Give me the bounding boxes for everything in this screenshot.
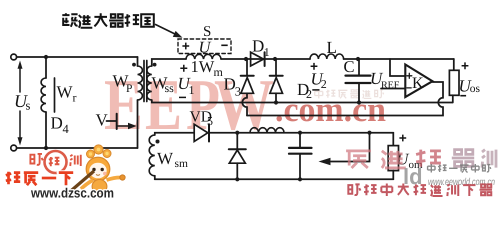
inductor Wm magamp winding [186, 54, 221, 59]
svg-text:L: L [327, 38, 337, 57]
svg-text:os: os [470, 83, 481, 95]
watermark weiku yixia red text [6, 172, 73, 186]
wire L to output [344, 58, 454, 60]
diode D2 top lead [275, 59, 277, 76]
watermark yiditu peixun red chars [346, 150, 496, 168]
wire branch to comparator plus input [390, 59, 405, 76]
wire VD5 to corner [208, 132, 393, 134]
svg-text:2: 2 [321, 77, 327, 91]
bottom-section wire Wsm top [155, 133, 194, 135]
svg-text:s: s [26, 99, 31, 113]
transformer secondary winding Wss [147, 66, 152, 100]
svg-text:U: U [199, 38, 212, 57]
label plus of U2 [311, 63, 318, 70]
watermark shepin tianxian red row [348, 184, 492, 196]
svg-text:W: W [157, 149, 174, 168]
svg-text:1: 1 [189, 83, 195, 97]
svg-text:D: D [51, 114, 63, 133]
transistor V gate lead [107, 120, 117, 122]
input terminal top [11, 54, 17, 60]
node junction freewheel diode bottom [235, 177, 239, 181]
label plus 1Wm [180, 65, 187, 72]
label minus of U2 [312, 89, 319, 91]
winding Wsm [149, 135, 155, 176]
wire primary-to-rail vertical [137, 100, 139, 148]
label plus of Uom [399, 135, 406, 142]
polarity dot Wss [153, 63, 157, 67]
svg-text:m: m [214, 65, 224, 79]
op-amp K comparator triangle [405, 65, 432, 98]
watermark dzsc mascot head [86, 157, 110, 181]
wire secondary bottom rail [152, 100, 453, 103]
reset current arrow [331, 133, 370, 162]
resistor Uos load [453, 59, 455, 70]
label plus in magamp box [182, 43, 189, 50]
wire D1 to L [246, 58, 310, 60]
svg-text:P: P [126, 83, 132, 95]
input terminal bottom [11, 145, 17, 151]
label minus under U1 [179, 96, 186, 98]
capacitor C plates [346, 74, 371, 76]
capacitor C bottom lead [358, 84, 360, 103]
watermark dzsc magnifier ring [45, 151, 67, 173]
voltage arrow Us down [19, 111, 21, 138]
diode D2 anode lead [275, 93, 277, 102]
svg-text:ss: ss [165, 81, 175, 95]
dashed box magamp coil [178, 39, 231, 54]
svg-text:W: W [57, 83, 74, 102]
wire Wsm bottom lead [154, 176, 156, 180]
svg-text:5: 5 [207, 114, 213, 128]
inductor L [310, 54, 344, 59]
core bar of Wr [54, 78, 56, 112]
label plus of Uos [462, 62, 469, 69]
node junction freewheel diode top [235, 131, 239, 135]
node junction D1 anode [244, 57, 248, 61]
wire bottom-left rail [17, 147, 138, 149]
diode D3 top lead [246, 59, 248, 76]
wire Wr branch lower [45, 112, 47, 148]
freewheel diode bottom section [236, 133, 238, 150]
watermark dzsc: zhao xin pian red chars [30, 154, 80, 166]
watermark EEPW big pink letters [104, 64, 274, 145]
capacitor C top lead [358, 59, 360, 75]
polarity dot Wsm [156, 140, 160, 144]
wire bottom-section rail [155, 178, 393, 180]
svg-text:C: C [344, 57, 355, 76]
wire K output to D3 reset line with hops [247, 82, 443, 116]
watermark eeworld chinese gray [428, 164, 491, 172]
wire top-left rail [17, 56, 138, 58]
node junction C rail [357, 100, 361, 104]
wire Uref to comparator minus input [381, 88, 405, 90]
watermark dzsc mascot crown bubbles [87, 145, 112, 158]
voltage arrow Us up [19, 68, 21, 92]
node junction D2 rail [274, 100, 278, 104]
wire primary top lead [137, 57, 139, 66]
capacitor bottom filter [299, 133, 301, 147]
diode D1 [251, 52, 264, 66]
svg-text:4: 4 [63, 122, 70, 136]
svg-text:ld: ld [403, 164, 423, 189]
inductor bottom filter [250, 128, 284, 133]
node junction reset arrow tap [367, 131, 371, 135]
svg-text:1W: 1W [191, 57, 215, 76]
diode D2 [270, 75, 283, 77]
label minus of Uos [460, 95, 466, 97]
wire Wm to D1 [221, 58, 246, 60]
transformer core bars [144, 61, 147, 102]
transistor V arrow [117, 125, 128, 127]
node junction bottom cap top [298, 131, 302, 135]
svg-text:www.dzsc.com: www.dzsc.com [30, 186, 114, 199]
watermark dzsc mascot body arms legs [81, 175, 125, 197]
watermark dzsc mascot brush pen [67, 171, 95, 195]
svg-text:K: K [412, 75, 424, 92]
svg-text:V: V [96, 111, 109, 130]
annotation arrow to magamp [156, 25, 177, 35]
transformer primary winding Wp [138, 66, 143, 100]
node junction Wr top [44, 55, 48, 59]
label minus in magamp box [221, 44, 227, 46]
polarity dot Wp [132, 63, 136, 67]
node junction C top [356, 57, 360, 61]
op-amp minus input mark [407, 87, 411, 89]
svg-text:REF: REF [381, 80, 400, 91]
wire Wr branch upper [45, 57, 47, 78]
svg-text:2: 2 [306, 87, 312, 101]
svg-text:3: 3 [235, 85, 241, 99]
svg-text:sm: sm [175, 158, 188, 170]
annotation text ci fang da qi xian quan [62, 13, 154, 27]
transistor V gate bar [116, 114, 118, 129]
resistor Uom [392, 133, 394, 146]
inductor Wr winding [41, 78, 46, 112]
svg-text:D: D [252, 37, 264, 56]
watermark faint chinese line (dianzi chanpin shijie) [315, 89, 384, 98]
op-amp plus input mark [407, 73, 412, 78]
svg-text:r: r [73, 91, 77, 105]
diode VD5 [194, 124, 208, 141]
node junction Wr bottom [44, 146, 48, 150]
node junction D1 cathode [273, 57, 277, 61]
diode D3 anode lead with hop over rail [242, 93, 247, 115]
node junction bottom cap bottom [298, 177, 302, 181]
svg-text:1: 1 [264, 45, 270, 59]
wire secondary top lead [152, 59, 186, 66]
diode D3 [241, 75, 254, 77]
